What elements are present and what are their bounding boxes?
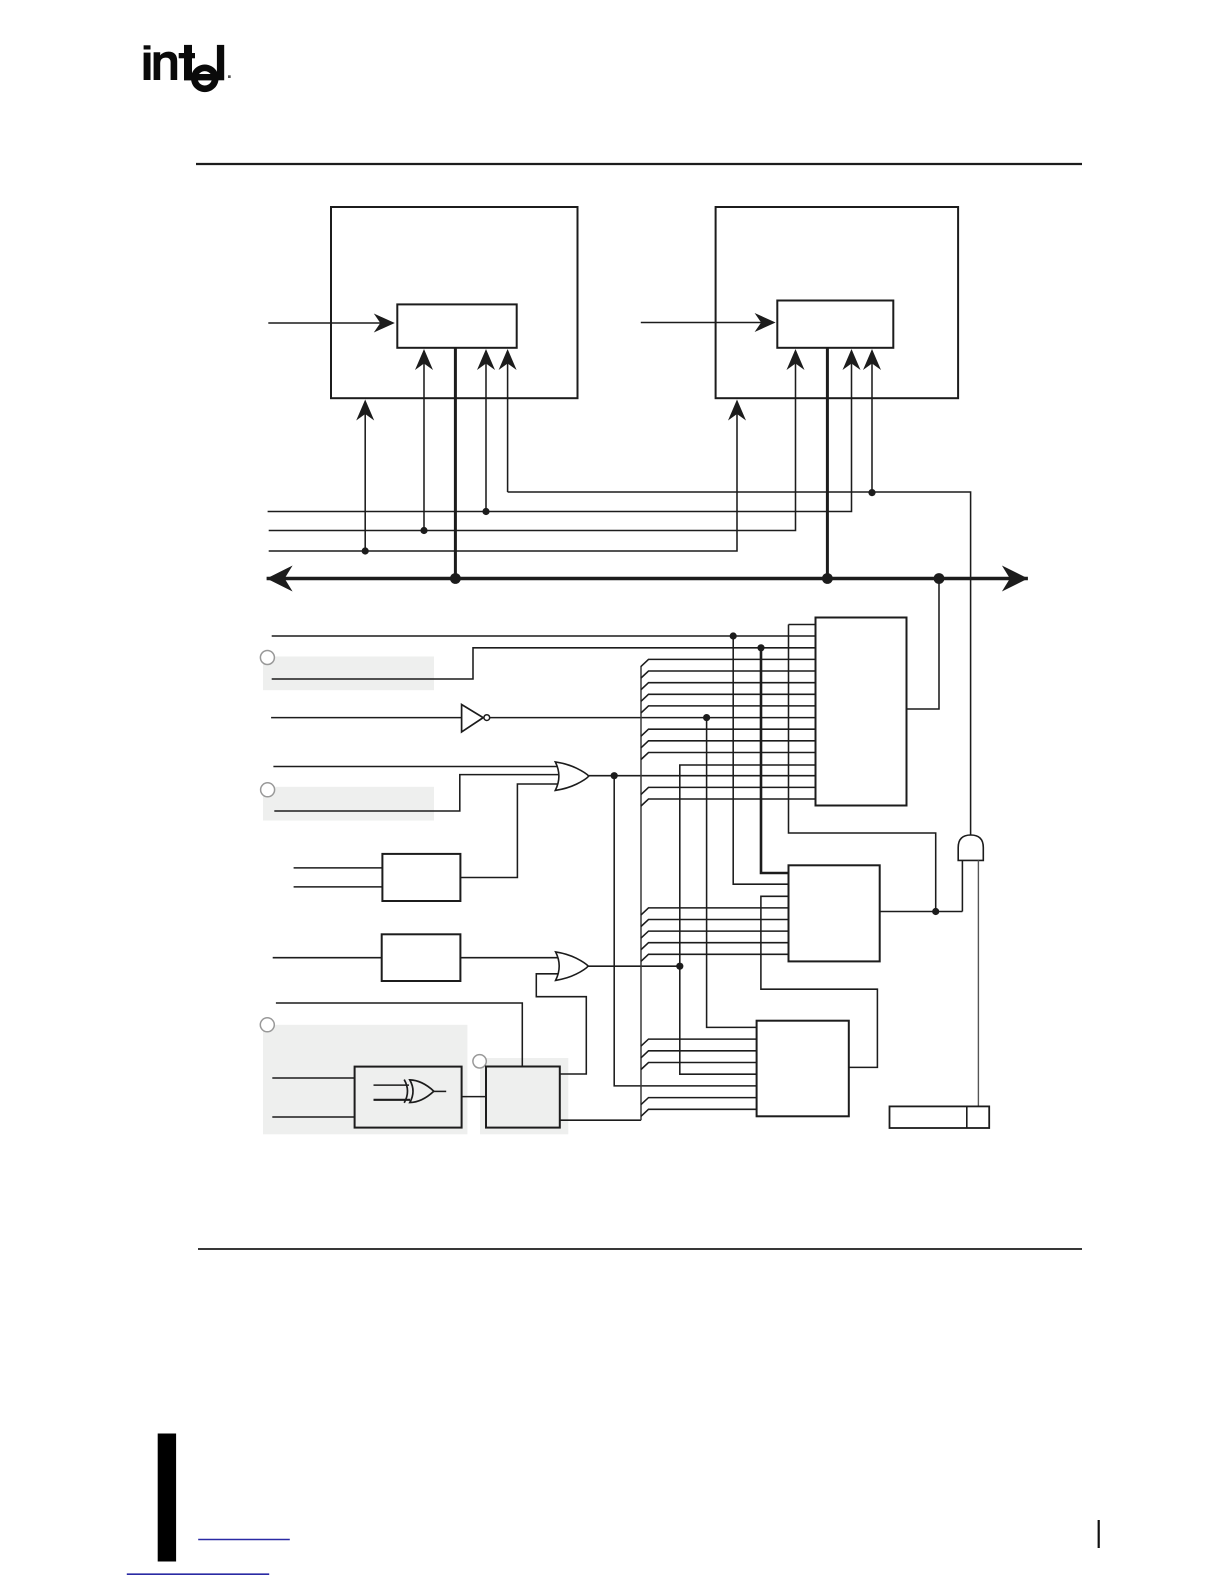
wire: OR2 output drop to status block row [680, 966, 757, 1074]
control logic block [789, 865, 880, 961]
wire: AND left leg [961, 860, 963, 911]
internal bus bundle (vertical) [640, 666, 642, 1120]
wire: row D (y551) to outer box2 [269, 402, 737, 552]
wire: control block output to AND [880, 911, 963, 913]
arrowhead inner box2 c [863, 349, 881, 370]
bundle fan line into control block 3 [641, 931, 789, 938]
wire: CE write-back path (x788.5 riser / to AND dot) [789, 625, 936, 912]
bundle fan line into CE block 6 [641, 729, 816, 736]
junction dot row C / riser a [420, 527, 427, 534]
wire: drop OR1 output to status block [614, 776, 756, 1086]
wire: OR1 input 3 from register R1 output [460, 784, 560, 878]
bundle fan line into control block 5 [641, 954, 789, 961]
xor gate input stub b [374, 1099, 411, 1101]
xor wrapper box [355, 1067, 462, 1128]
wire: riser to outer box1 arrow [364, 402, 366, 552]
heavy write bus from inner box1 [454, 348, 457, 579]
bundle fan line into status block 3 [641, 1063, 757, 1070]
bus junction dot 2 [822, 573, 833, 584]
system data bus [267, 577, 1028, 580]
junction dot inverter output [703, 714, 710, 721]
wire: left arrow into inner box 1 [268, 322, 392, 324]
grey label panel 1 (CLK n) [263, 657, 434, 691]
wire: drop from y636 to control block [733, 636, 788, 884]
bus arrowhead right [1002, 566, 1028, 592]
counter register block (top-right outer box) [716, 207, 959, 398]
wire: inverter output into CE block [490, 717, 816, 719]
junction dot row D / outer box1 riser [362, 547, 369, 554]
wire: row y636 into CE block [272, 635, 816, 637]
status bar divider [966, 1106, 968, 1128]
bundle fan line into status block 4 [641, 1098, 757, 1105]
arrowhead outer box2 [728, 400, 746, 421]
xor gate input stub a [374, 1084, 410, 1086]
pin circle 1 [260, 651, 274, 665]
bundle fan line into control block 4 [641, 943, 789, 950]
junction dot y647.8 [757, 644, 764, 651]
register R2 [382, 934, 461, 981]
wire: riser to inner box2 arrow c [871, 351, 873, 493]
wire: CE top row (y624.5) [789, 624, 816, 626]
junction dot y636 [730, 632, 737, 639]
wire: OR2 lower input from OUT box [536, 974, 586, 1074]
wire: CE output to bus [907, 579, 940, 710]
grey label panel 4 (OUT flip-flop) [480, 1058, 568, 1134]
status latch block [757, 1021, 849, 1117]
OUT flip-flop box [486, 1067, 560, 1128]
heavy drop from y647.8 to control block [761, 648, 789, 873]
status bar (latch cell) [890, 1106, 990, 1128]
wire: R1 input a [294, 867, 383, 869]
bundle fan line into status block 5 [641, 1109, 757, 1116]
arrowhead inner box2 a [787, 349, 805, 370]
bundle fan line into CE block 10 [641, 799, 816, 806]
pin circle 4 [473, 1055, 486, 1068]
wire: row A (y492) from inner box1 to AND gate input [508, 492, 971, 835]
junction dot row A / inner box2 riser c [868, 489, 875, 496]
CE block (counting element) [816, 618, 907, 806]
bundle fan line into CE block 8 [641, 753, 816, 760]
bundle fan line into CE block 4 [641, 694, 816, 701]
wire: xor box input a [272, 1077, 354, 1079]
bus junction dot 1 [450, 573, 461, 584]
bundle fan line into control block 2 [641, 920, 789, 927]
arrowhead inner box1 a [415, 349, 433, 370]
wire: status link (control block to status block) [761, 896, 878, 1067]
wire: CLK row from panel1 (y679 step to y647.8) [272, 648, 816, 679]
bundle fan line into status block 1 [641, 1039, 757, 1046]
bundle fan line into control block 1 [641, 908, 789, 915]
bus arrowhead left [267, 566, 293, 592]
wire: OR1 input 2 from panel2 row (y811) [274, 775, 560, 811]
bundle fan line into CE block 2 [641, 671, 816, 678]
wire: OR1 input 1 (GATE row) [273, 766, 560, 768]
wire: OR1 output into CE block [589, 775, 816, 777]
arrowhead inner box1 b [477, 349, 495, 370]
wire: R1 input b [294, 886, 383, 888]
bus junction dot 3 [934, 573, 945, 584]
footer link underline 1 [198, 1539, 290, 1541]
wire: R2 input [273, 957, 382, 959]
inverter bubble [484, 715, 490, 721]
wire: xor box to OUT box [462, 1096, 486, 1098]
pin circle 3 [260, 1018, 274, 1032]
wire: left arrow into inner box 2 [641, 322, 773, 324]
junction dot row B / riser b [482, 508, 489, 515]
intel logo [144, 45, 231, 92]
bundle fan line into CE block 1 [641, 659, 816, 666]
inverter U1 [462, 705, 484, 732]
bundle fan line into CE block 7 [641, 741, 816, 748]
wire: AND output leg down to status bar [977, 860, 979, 1106]
arrowhead inner box2 b [843, 349, 861, 370]
wire: xor box input b [272, 1116, 354, 1118]
revision change bar [158, 1434, 176, 1562]
wire: OR2 output riser to CE block row [680, 765, 816, 966]
or-gate OR2 [556, 952, 589, 981]
wire: inverter input [271, 717, 462, 719]
wire: OUT box lower output to internal bus bundle [560, 1119, 641, 1121]
bottom rule [198, 1248, 1082, 1250]
wire: row B (y511.5) to inner box2 [268, 351, 852, 512]
junction dot OR1 output [611, 772, 618, 779]
bundle fan line into CE block 5 [641, 706, 816, 713]
bundle fan line into CE block 9 [641, 787, 816, 794]
footer link underline 2 [127, 1573, 269, 1575]
wire: xor output stub [434, 1090, 446, 1092]
wire: R2 output to OR2 [460, 957, 560, 959]
arrowhead into inner box 1 [374, 314, 395, 333]
junction dot OR2 output [676, 963, 683, 970]
bundle fan line into status block 2 [641, 1051, 757, 1058]
arrowhead into inner box 2 [755, 313, 776, 332]
wire: row y1003 into OUT box top [276, 1003, 522, 1067]
inner latch box 2 (OLM/OLL) [777, 301, 893, 348]
wire: drop inverter output to status block [707, 718, 757, 1028]
grey label panel 3 (OUT n) [263, 1025, 467, 1135]
wire: riser to inner box1 arrow a [423, 351, 425, 531]
junction dot control output [932, 908, 939, 915]
heavy write bus from inner box2 [826, 348, 829, 579]
register R1 (edge detect) [382, 854, 460, 901]
and-gate U3 (down-facing) [958, 835, 983, 860]
or-gate OR1 [555, 762, 589, 791]
inner latch box 1 (CRM/CRL) [397, 304, 516, 347]
bundle fan line into CE block 3 [641, 683, 816, 690]
page edge tick [1098, 1520, 1100, 1548]
wire: row C (y530.5) to inner box2 [269, 351, 796, 531]
xor gate U2 [404, 1080, 434, 1103]
wire: riser to inner box1 arrow c [507, 351, 509, 492]
counter register block (top-left outer box) [331, 207, 578, 398]
pin circle 2 [261, 783, 275, 797]
arrowhead inner box1 c [499, 349, 517, 370]
top rule [196, 163, 1082, 165]
wire: riser to inner box1 arrow b [485, 351, 487, 512]
wire: OR2 output [588, 965, 680, 967]
arrowhead outer box1 [356, 400, 374, 421]
grey label panel 2 (GATE n) [263, 787, 434, 821]
